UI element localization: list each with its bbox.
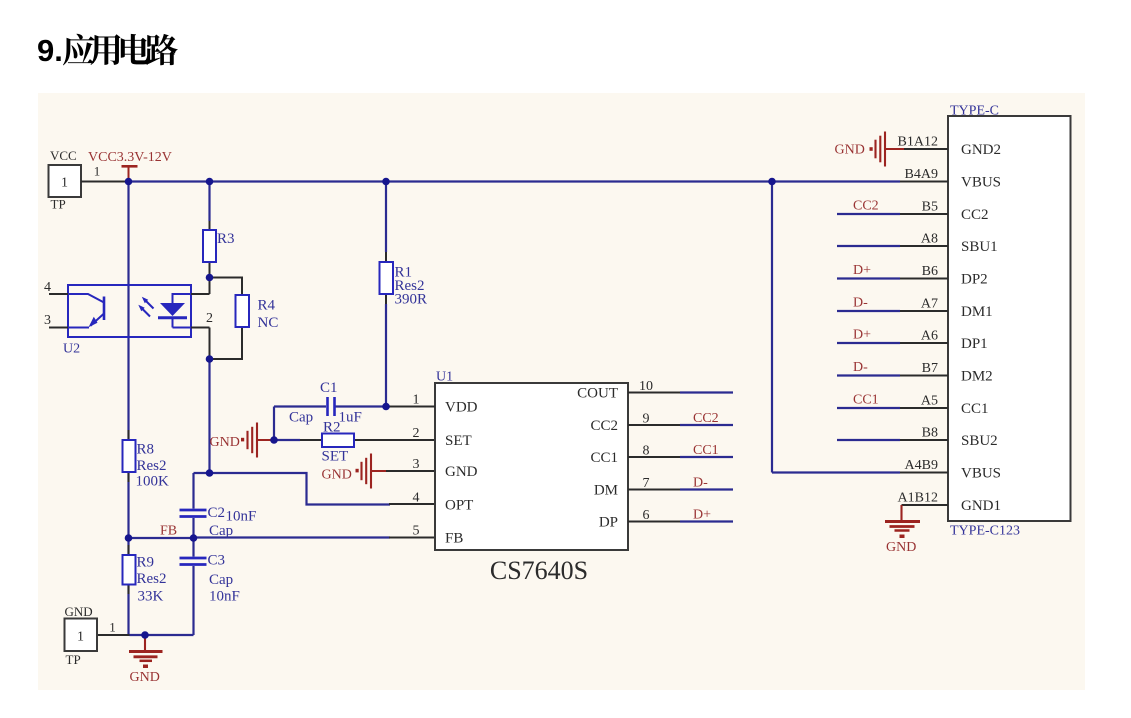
svg-text:D-: D- [853,360,868,375]
svg-text:1: 1 [413,393,420,408]
svg-text:8: 8 [643,444,650,459]
svg-text:U1: U1 [436,370,453,385]
svg-text:A7: A7 [921,297,938,312]
svg-text:SBU1: SBU1 [961,239,998,255]
svg-text:CC1: CC1 [853,393,879,408]
svg-text:1uF: 1uF [339,410,362,426]
svg-text:TP: TP [51,197,66,212]
svg-text:D+: D+ [853,263,871,278]
svg-text:33K: 33K [138,589,164,605]
svg-text:1: 1 [61,176,68,191]
svg-text:GND: GND [835,143,865,158]
svg-text:Cap: Cap [209,523,233,539]
svg-text:FB: FB [445,531,463,547]
svg-text:1: 1 [94,164,101,179]
svg-text:B6: B6 [922,264,938,279]
svg-text:SBU2: SBU2 [961,433,998,449]
svg-text:DM: DM [594,483,618,499]
svg-text:390R: 390R [395,292,428,308]
svg-text:9.: 9. [37,33,63,68]
svg-text:CS7640S: CS7640S [490,556,588,585]
svg-text:4: 4 [413,491,420,506]
svg-text:VBUS: VBUS [961,175,1001,191]
svg-text:B4A9: B4A9 [905,167,938,182]
svg-text:Res2: Res2 [137,571,167,587]
svg-text:CC1: CC1 [590,450,618,466]
svg-text:6: 6 [643,508,650,523]
svg-text:1: 1 [109,620,116,635]
svg-text:C2: C2 [208,505,226,521]
svg-text:2: 2 [206,311,213,326]
svg-text:DP: DP [599,515,618,531]
svg-text:VBUS: VBUS [961,466,1001,482]
svg-text:B1A12: B1A12 [898,135,938,150]
svg-text:4: 4 [44,280,51,295]
svg-text:A8: A8 [921,232,938,247]
svg-text:A1B12: A1B12 [898,491,938,506]
svg-text:10: 10 [639,379,653,394]
svg-text:VDD: VDD [445,400,478,416]
svg-text:R2: R2 [323,420,341,436]
svg-text:CC2: CC2 [590,418,618,434]
svg-text:R8: R8 [137,442,155,458]
svg-text:R9: R9 [137,555,155,571]
svg-text:3: 3 [413,457,420,472]
svg-text:R4: R4 [258,298,276,314]
svg-text:SET: SET [445,433,472,449]
svg-text:C1: C1 [320,380,338,396]
svg-text:D+: D+ [853,328,871,343]
svg-text:VCC: VCC [50,148,77,163]
svg-text:CC2: CC2 [961,207,989,223]
svg-text:CC1: CC1 [693,443,719,458]
svg-text:D-: D- [693,476,708,491]
svg-text:100K: 100K [136,474,170,490]
svg-text:DP1: DP1 [961,336,988,352]
svg-text:2: 2 [413,426,420,441]
svg-text:OPT: OPT [445,498,473,514]
svg-text:B7: B7 [922,361,938,376]
svg-text:VCC3.3V-12V: VCC3.3V-12V [88,150,172,165]
svg-text:A4B9: A4B9 [905,458,938,473]
svg-text:CC1: CC1 [961,401,989,417]
svg-text:10nF: 10nF [209,589,240,605]
svg-text:DM1: DM1 [961,304,993,320]
svg-text:B8: B8 [922,426,938,441]
svg-text:TYPE-C123: TYPE-C123 [950,524,1020,539]
svg-text:CC2: CC2 [693,411,719,426]
svg-text:DP2: DP2 [961,272,988,288]
svg-text:FB: FB [160,524,177,539]
svg-text:1: 1 [77,630,84,645]
svg-text:COUT: COUT [577,386,618,402]
svg-text:R3: R3 [217,231,235,247]
svg-text:D-: D- [853,296,868,311]
svg-text:GND: GND [210,435,240,450]
svg-text:TYPE-C: TYPE-C [950,104,999,119]
svg-text:7: 7 [643,476,650,491]
svg-text:U2: U2 [63,342,80,357]
svg-text:GND: GND [130,670,160,685]
svg-text:GND2: GND2 [961,142,1001,158]
svg-text:Cap: Cap [289,410,313,426]
svg-text:Cap: Cap [209,572,233,588]
svg-text:9: 9 [643,412,650,427]
svg-text:D+: D+ [693,508,711,523]
svg-text:GND: GND [65,604,93,619]
svg-text:A5: A5 [921,394,938,409]
svg-text:GND: GND [445,464,478,480]
svg-text:GND: GND [322,468,352,483]
svg-text:SET: SET [322,449,349,465]
svg-text:5: 5 [413,524,420,539]
svg-text:Res2: Res2 [137,458,167,474]
svg-text:TP: TP [66,652,81,667]
svg-text:B5: B5 [922,200,938,215]
svg-text:NC: NC [258,315,279,331]
svg-text:3: 3 [44,313,51,328]
svg-text:A6: A6 [921,329,938,344]
svg-text:C3: C3 [208,553,226,569]
svg-text:GND: GND [886,540,916,555]
svg-text:DM2: DM2 [961,369,993,385]
svg-text:CC2: CC2 [853,199,879,214]
svg-text:GND1: GND1 [961,498,1001,514]
